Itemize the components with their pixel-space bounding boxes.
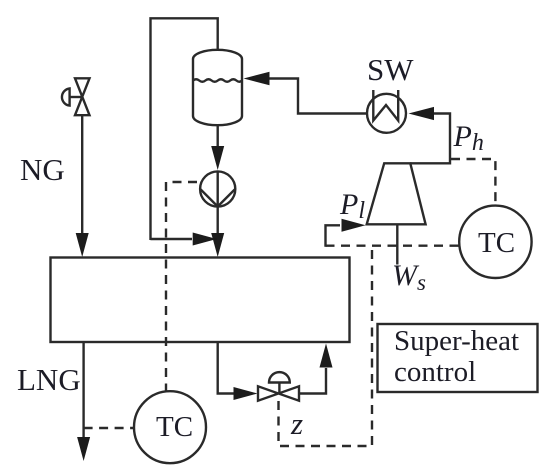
svg-text:TC: TC: [478, 227, 515, 259]
JT valve stem: [278, 383, 280, 394]
dashed signal: TC1 up to pump: [166, 182, 201, 393]
svg-text:Super-heat: Super-heat: [394, 325, 519, 357]
arrow into JT valve (right): [234, 387, 258, 400]
NG valve stem: [70, 96, 83, 98]
dashed signal: LNG line to TC1: [84, 427, 134, 429]
dashed signal: P_h to TC2: [451, 159, 495, 205]
wire: drum outlet down to pump: [216, 125, 218, 150]
JT valve actuator dome: [269, 372, 290, 382]
expander / turbine (trapezoid): [367, 163, 426, 224]
arrow LNG out (down): [77, 437, 90, 461]
arrow into drum (left): [244, 72, 270, 86]
wire: recycle loop from junction up over to flash drum top: [151, 18, 218, 240]
arrow into heat exchanger top from pump line (down): [211, 233, 224, 257]
JT valve z (horizontal bowtie): [258, 386, 299, 400]
dashed signal: valve z to super-heat controller: [279, 246, 373, 446]
svg-text:z: z: [290, 406, 303, 441]
heat exchanger HX (main rectangle): [51, 258, 350, 343]
NG valve actuator (half-circle, flat side right): [62, 89, 70, 106]
control valve on NG feed (vertical bowtie): [75, 78, 90, 115]
svg-text:SW: SW: [367, 52, 414, 87]
liquid level wavy line: [193, 79, 242, 82]
wire: LNG product line: [82, 342, 84, 438]
wire: valve outlet up into HX: [299, 368, 326, 394]
flash drum V1: [193, 50, 242, 125]
svg-text:Pl: Pl: [339, 188, 365, 224]
svg-text:control: control: [394, 356, 476, 388]
wire: NG feed line: [81, 115, 83, 235]
shaft line W_s: [396, 224, 398, 264]
svg-text:Ws: Ws: [392, 259, 426, 295]
super-heat control box: [378, 324, 538, 392]
svg-text:NG: NG: [20, 152, 65, 187]
temperature controller TC1 (bottom): [134, 391, 206, 463]
temperature controller TC2 (right): [459, 206, 531, 278]
SW cooler (circle with W tubes): [367, 94, 406, 133]
arrow: recycle loop into pump discharge line (right): [193, 233, 217, 246]
arrow into pump (down): [211, 146, 224, 170]
wire: P_l tap corner: [326, 225, 341, 246]
wire: pump discharge down to heat exchanger: [216, 207, 218, 236]
svg-text:TC: TC: [156, 411, 193, 443]
wire: recycle loop bottom horizontal joining pump discharge: [151, 238, 193, 240]
arrow P_l into expander (right): [342, 219, 366, 232]
dashed signal: P_l tap to TC2: [326, 244, 460, 246]
svg-text:Ph: Ph: [453, 120, 484, 156]
wire: SW cooler to drum: [268, 79, 367, 114]
wire: expander inlet from P_h corner: [410, 114, 450, 164]
arrow NG into heat exchanger (down): [76, 233, 89, 257]
wire: HX outlet down to JT valve: [218, 342, 234, 394]
arrow into SW cooler (left): [409, 107, 435, 120]
pump P1: [200, 171, 235, 206]
svg-text:LNG: LNG: [17, 362, 81, 397]
arrow into HX bottom (up): [320, 344, 333, 368]
